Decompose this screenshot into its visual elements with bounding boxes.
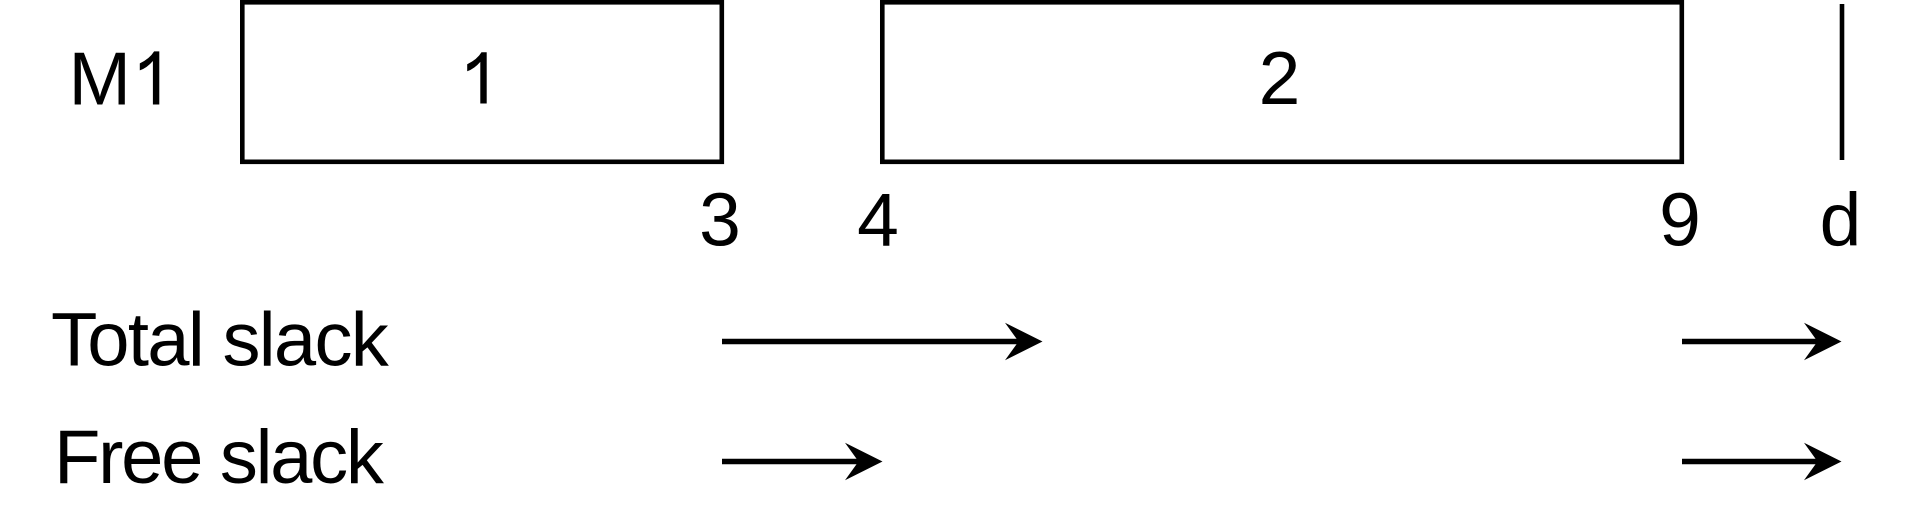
due date line d (1840, 4, 1845, 160)
total slack arrow 2 head (1804, 323, 1842, 360)
free slack arrow 1 head (845, 443, 883, 480)
svg-text:Free slack: Free slack (54, 415, 385, 500)
svg-text:d: d (1820, 178, 1862, 262)
machine label M1 : digit 1 (arial-style, no foot serif) (140, 51, 160, 104)
svg-text:Total slack: Total slack (51, 298, 390, 383)
job 2 box (882, 2, 1682, 162)
free slack arrow 2 shaft (1682, 459, 1821, 465)
free slack arrow 1 shaft (722, 459, 862, 465)
svg-text:3: 3 (699, 178, 741, 262)
total slack arrow 1 shaft (722, 339, 1022, 345)
job 1 box (242, 2, 722, 162)
svg-text:2: 2 (1259, 36, 1301, 120)
free slack arrow 2 head (1804, 443, 1842, 480)
svg-text:M: M (69, 37, 131, 121)
total slack arrow 1 head (1005, 323, 1043, 360)
total slack arrow 2 shaft (1682, 339, 1821, 345)
job 1 label digit 1 (arial-style, no foot serif) (467, 52, 487, 103)
svg-text:9: 9 (1659, 178, 1701, 262)
svg-text:4: 4 (857, 178, 899, 262)
